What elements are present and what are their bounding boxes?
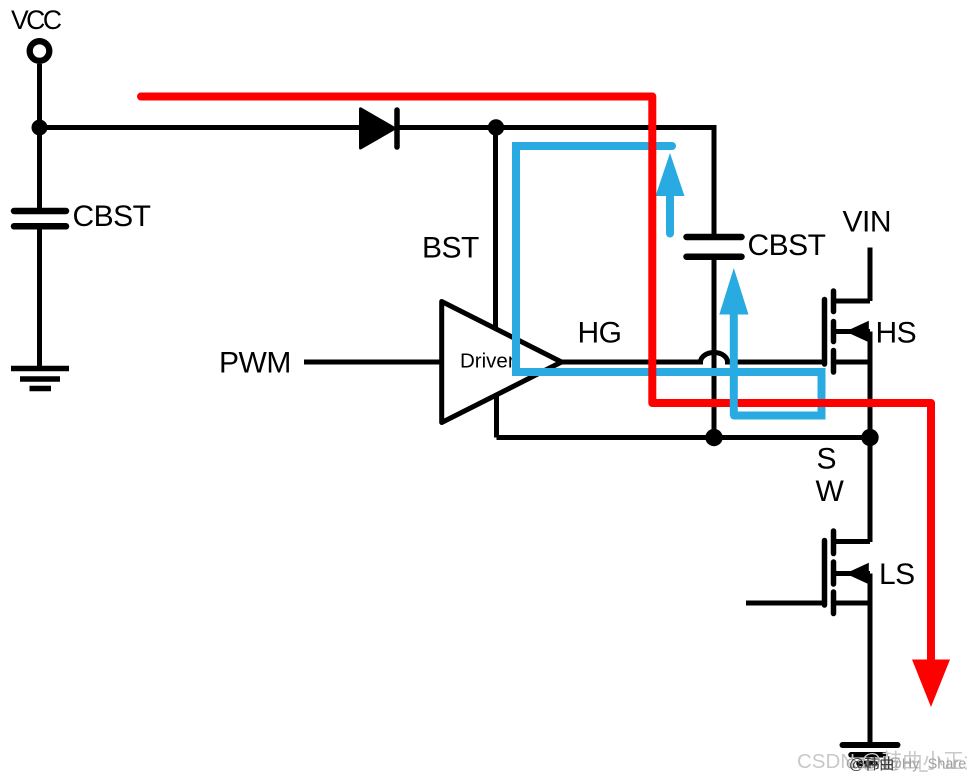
wire SW to LS drain [868,438,873,543]
blue arrow up through CBST2 branch (over red) tail [730,310,738,416]
wire HS source to SW [868,332,873,438]
transistor LS channel dashes [831,531,837,614]
wire VCC vertical [37,64,42,209]
transistor HS body arrow [846,321,869,342]
transistor HS gate bar [822,300,828,365]
capacitor CBST2 (right) bottom plate [687,253,742,260]
wire red discharge path [141,97,931,662]
wire LS source to ground [868,574,873,746]
ground (left) [11,369,69,389]
wire diode cathode to BST node and corner down to CBST2 [397,128,714,236]
blue arrow up (loop top) head [656,153,685,196]
junction dot rail-CBST2 [705,429,722,446]
wire bottom rail [497,435,871,440]
svg-text:LS: LS [879,558,915,591]
svg-text:VCC: VCC [11,5,62,35]
svg-text:CBST: CBST [73,200,151,233]
transistor LS gate bar [822,541,828,606]
junction dot rail-SW [861,429,878,446]
svg-text:S: S [817,443,837,476]
blue arrow up (loop top) tail [666,197,674,234]
transistor HS source connection [834,360,871,365]
op-amp U1 driver triangle [442,302,562,423]
transistor HS drain connection [834,299,871,304]
svg-text:CBST: CBST [748,229,826,262]
transistor HS channel dashes [831,291,837,372]
transistor LS body arrow [846,563,869,584]
wire BST pin into driver [493,128,498,332]
wire left cap to ground [37,226,42,368]
svg-text:HG: HG [578,317,622,350]
transistor HS body connection [834,329,871,334]
wire PWM input [304,360,441,365]
svg-text:PWM: PWM [219,347,291,380]
svg-text:@韩曲: @韩曲 [849,756,894,773]
wire VIN to HS drain [868,248,873,302]
wire driver return pin [494,394,499,438]
transistor LS body connection [834,571,871,576]
diode D1 triangle [361,109,395,148]
diode D1 cathode bar [394,110,400,147]
VCC terminal [30,41,50,61]
svg-text:W: W [816,475,845,508]
junction dot at VCC node [32,120,48,136]
capacitor CBST (left) bottom plate [14,223,66,230]
wire CBST2 bottom to SW rail [712,257,717,438]
wire LS gate [746,601,825,606]
wire top horizontal to diode anode [40,125,363,130]
ground (bottom right) [843,745,898,764]
capacitor CBST (left) top plate [14,208,66,215]
wire HG with hop over CBST2 wire [559,353,825,363]
svg-text:BST: BST [422,232,479,265]
transistor LS source connection [834,601,871,606]
wire blue bootstrap-charge loop (under red) [516,146,822,416]
transistor LS drain connection [834,539,871,544]
svg-text:HS: HS [876,317,917,350]
blue arrow up through CBST2 branch head [719,268,748,315]
junction dot BST node [488,119,504,135]
svg-text:VIN: VIN [843,206,892,239]
svg-text:Driver: Driver [460,350,515,373]
red arrow head down [912,660,950,708]
capacitor CBST2 (right) top plate [687,234,742,241]
